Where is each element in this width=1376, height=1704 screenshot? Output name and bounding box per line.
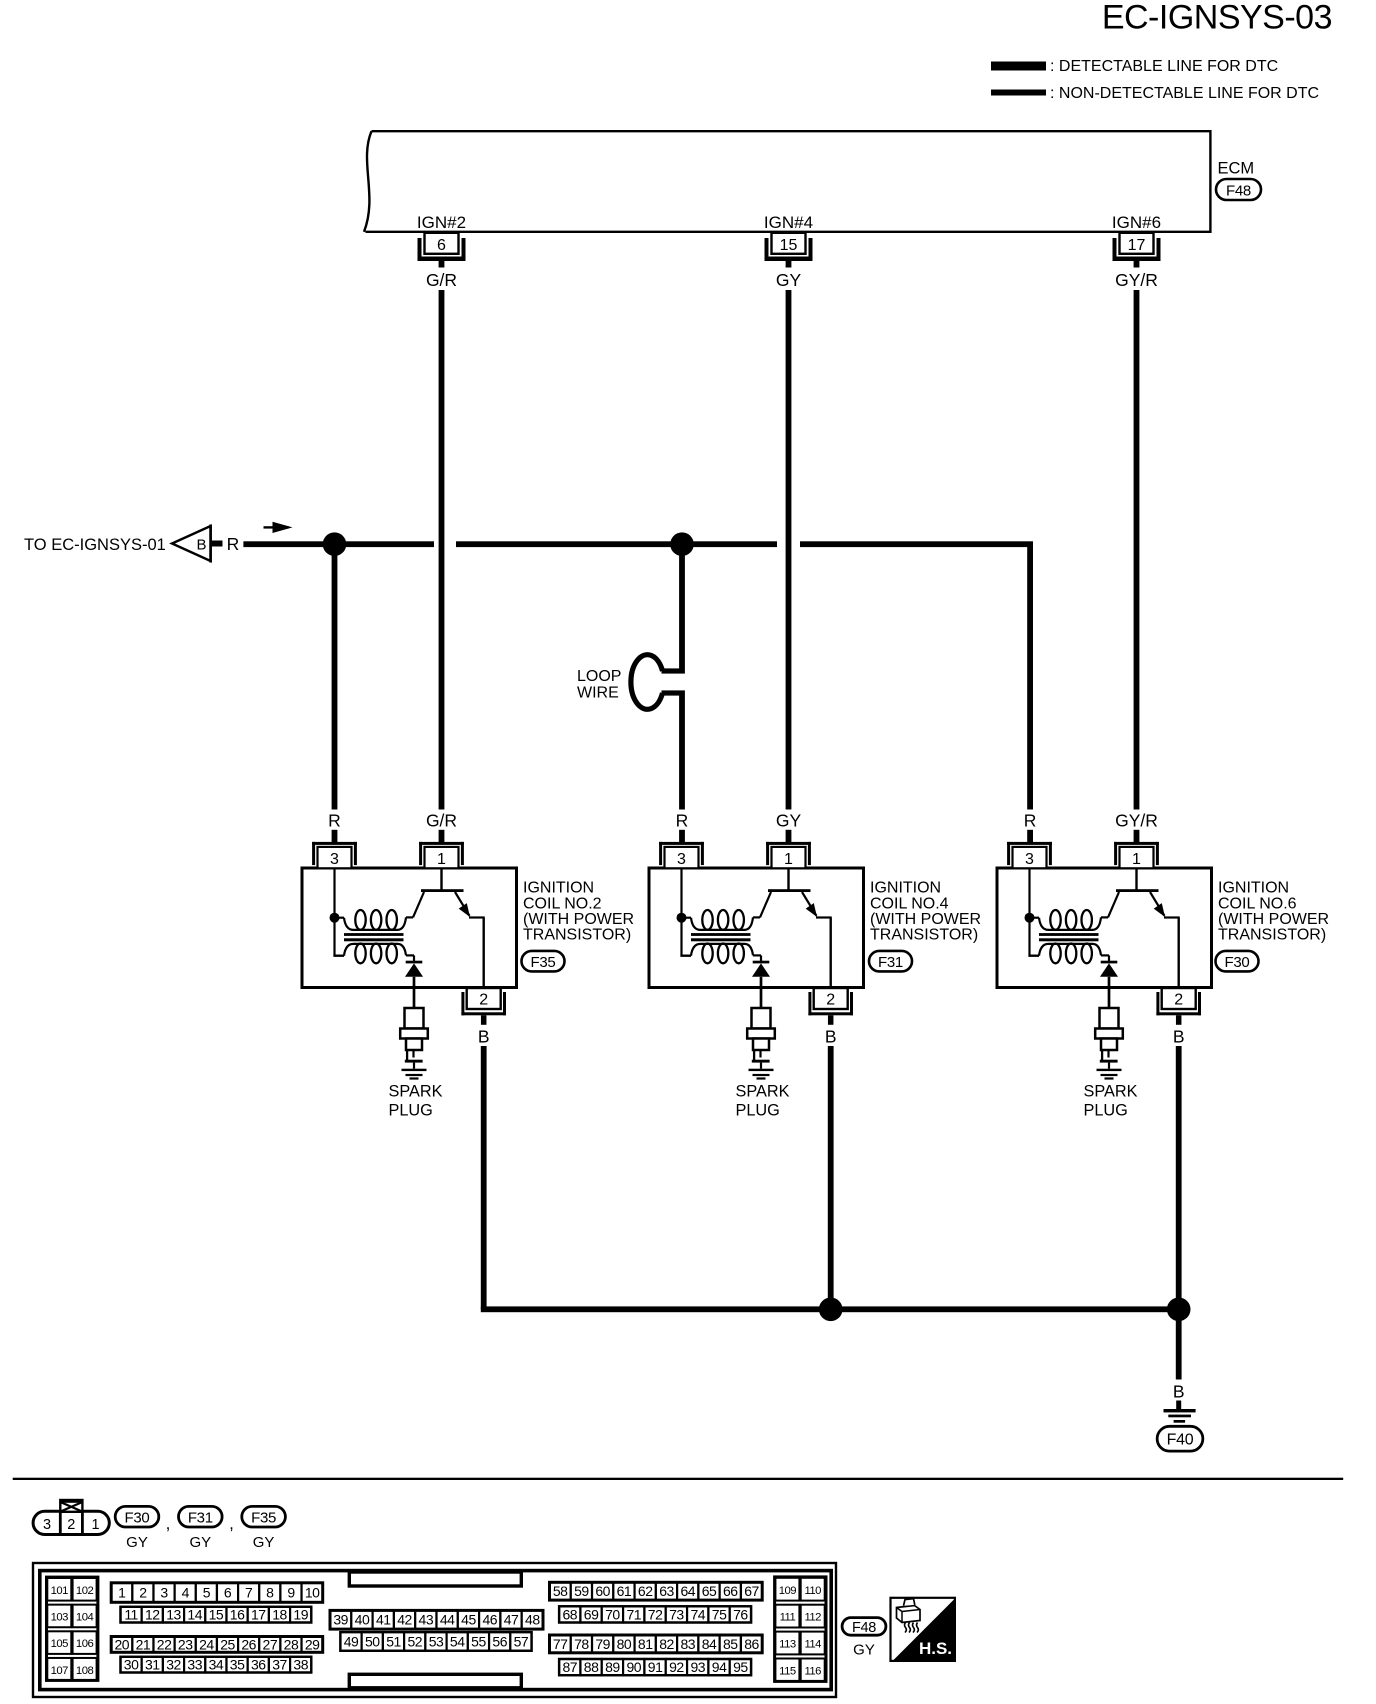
- connector F35 oval: [522, 951, 565, 972]
- svg-text:84: 84: [702, 1636, 717, 1652]
- transformer T2 secondary winding: [333, 944, 414, 964]
- transformer T2 primary winding: [339, 910, 414, 930]
- ground bus horizontal wire: [481, 1306, 1183, 1312]
- coil 6 internal wiring: pin3 lead: [1028, 868, 1030, 956]
- svg-text:86: 86: [744, 1636, 759, 1652]
- svg-text:67: 67: [744, 1583, 759, 1599]
- svg-text:1: 1: [118, 1584, 126, 1600]
- svg-text:R: R: [676, 810, 689, 830]
- svg-text:R: R: [1024, 810, 1037, 830]
- svg-text:76: 76: [733, 1606, 748, 1622]
- svg-text:23: 23: [178, 1636, 193, 1652]
- wire bus corner down to coil6 pin 3: [1027, 544, 1033, 810]
- svg-text:F35: F35: [531, 954, 556, 971]
- svg-text:27: 27: [263, 1636, 278, 1652]
- coil 6 pin 1 connector: [1114, 842, 1159, 868]
- coil 6 internal junction dot: [1025, 913, 1035, 923]
- svg-text:78: 78: [574, 1636, 589, 1652]
- svg-text:56: 56: [492, 1633, 507, 1649]
- ECM connector F48 face view outer box: [33, 1563, 836, 1697]
- svg-text:41: 41: [376, 1612, 391, 1628]
- connector F31 oval: [869, 951, 912, 972]
- transformer T6 primary winding: [1034, 910, 1109, 930]
- coil 4 internal junction dot: [677, 913, 687, 923]
- svg-text:,: ,: [166, 1514, 171, 1533]
- svg-text:20: 20: [114, 1636, 129, 1652]
- terminal rows 68-76: [559, 1606, 751, 1622]
- svg-text:PLUG: PLUG: [1084, 1102, 1128, 1120]
- svg-text:16: 16: [230, 1607, 245, 1623]
- svg-text:R: R: [227, 534, 240, 554]
- ignition coil box 2: [302, 868, 517, 988]
- svg-text:15: 15: [209, 1607, 224, 1623]
- svg-text:108: 108: [76, 1665, 94, 1677]
- coil 2 internal wiring: pin3 lead: [333, 868, 335, 956]
- svg-text:IGNITION: IGNITION: [1218, 880, 1289, 897]
- svg-text:68: 68: [562, 1606, 577, 1622]
- bus wire horizontal segment 2: [456, 541, 777, 547]
- svg-text:6: 6: [224, 1584, 232, 1600]
- svg-text:101: 101: [51, 1585, 69, 1597]
- wire from loop wire down to coil4 pin 3: [679, 696, 685, 810]
- svg-text:107: 107: [51, 1665, 69, 1677]
- connector F48 oval (ECM): [1216, 179, 1261, 200]
- ignition coil box 4: [649, 868, 864, 988]
- svg-text:IGNITION: IGNITION: [523, 880, 594, 897]
- svg-text:B: B: [196, 537, 206, 554]
- terminal rows 49-57: [340, 1632, 531, 1651]
- svg-text:B: B: [1173, 1381, 1185, 1401]
- svg-text:70: 70: [605, 1606, 620, 1622]
- svg-text:TRANSISTOR): TRANSISTOR): [523, 927, 631, 944]
- ECM terminal 6 (IGN#2) connector: [418, 233, 466, 268]
- diode D4: [752, 955, 770, 1008]
- svg-text:WIRE: WIRE: [577, 685, 619, 702]
- svg-text:22: 22: [157, 1636, 172, 1652]
- svg-text:74: 74: [690, 1606, 705, 1622]
- bus wire horizontal segment 3: [800, 541, 1033, 547]
- svg-text:106: 106: [76, 1638, 94, 1650]
- svg-text:F31: F31: [878, 954, 903, 971]
- svg-text:57: 57: [514, 1633, 529, 1649]
- off-page connector triangle B: [172, 526, 211, 561]
- svg-text:17: 17: [251, 1607, 266, 1623]
- svg-text:F40: F40: [1167, 1432, 1194, 1449]
- svg-text:B: B: [1173, 1027, 1185, 1047]
- terminal rows 30-38: [121, 1657, 312, 1673]
- svg-text:85: 85: [723, 1636, 738, 1652]
- transformer T2 core: [344, 933, 404, 936]
- svg-text:30: 30: [124, 1657, 139, 1673]
- svg-text:1: 1: [1132, 851, 1141, 868]
- svg-text:GY: GY: [126, 1534, 148, 1551]
- svg-text:B: B: [825, 1027, 837, 1047]
- svg-text:33: 33: [187, 1657, 202, 1673]
- H.S. data link icon: [891, 1598, 955, 1661]
- wire from ECM IGN#2 down to ignition coil pin 1: [439, 290, 445, 810]
- ignition coil 2 label: [523, 880, 634, 944]
- ECM box U1 (partial outline, torn left edge): [366, 131, 1211, 232]
- svg-text:3: 3: [43, 1517, 51, 1533]
- svg-text:F35: F35: [251, 1509, 276, 1526]
- svg-text:: NON-DETECTABLE LINE FOR DTC: : NON-DETECTABLE LINE FOR DTC: [1050, 85, 1319, 102]
- svg-text:1: 1: [784, 851, 793, 868]
- svg-text:111: 111: [780, 1612, 796, 1624]
- svg-text:ECM: ECM: [1218, 160, 1255, 178]
- ECM terminal 15 (IGN#4) connector: [765, 233, 813, 268]
- svg-text:F48: F48: [1226, 182, 1251, 199]
- svg-text:66: 66: [723, 1583, 738, 1599]
- svg-text:71: 71: [626, 1606, 641, 1622]
- svg-text:2: 2: [139, 1584, 147, 1600]
- svg-text:GY/R: GY/R: [1115, 810, 1158, 830]
- svg-text:PLUG: PLUG: [736, 1102, 780, 1120]
- svg-text:89: 89: [605, 1659, 620, 1675]
- svg-text:29: 29: [305, 1636, 320, 1652]
- svg-text:5: 5: [203, 1584, 211, 1600]
- terminal rows 39-48: [330, 1610, 543, 1629]
- ignition coil 4 label: [870, 880, 981, 944]
- svg-text:(WITH POWER: (WITH POWER: [870, 911, 981, 928]
- svg-text:IGN#4: IGN#4: [764, 213, 813, 232]
- svg-text:GY: GY: [776, 810, 802, 830]
- transformer T6 secondary winding: [1028, 944, 1109, 964]
- coil 2 pin 2 connector: [461, 988, 506, 1025]
- svg-text:69: 69: [584, 1606, 599, 1622]
- svg-text:SPARK: SPARK: [1084, 1082, 1138, 1100]
- svg-text:42: 42: [397, 1612, 412, 1628]
- svg-text:12: 12: [145, 1607, 160, 1623]
- svg-text:40: 40: [355, 1612, 370, 1628]
- connector F30 oval (bottom): [115, 1506, 159, 1550]
- ECM terminal 17 (IGN#6) connector: [1113, 233, 1161, 268]
- svg-text:58: 58: [553, 1583, 568, 1599]
- wire from coil 4 pin 2 down to ground bus: [828, 1046, 834, 1309]
- svg-text:G/R: G/R: [426, 810, 457, 830]
- svg-text:102: 102: [76, 1585, 94, 1597]
- svg-text:109: 109: [779, 1585, 797, 1597]
- coil 4 pin 1 connector: [766, 842, 811, 868]
- svg-text:1: 1: [437, 851, 446, 868]
- svg-text:13: 13: [166, 1607, 181, 1623]
- junction dot at coil4 ground: [819, 1298, 843, 1322]
- svg-text:87: 87: [562, 1659, 577, 1675]
- wire from coil 6 pin 2 down to ground bus: [1176, 1046, 1182, 1309]
- svg-text:49: 49: [344, 1633, 359, 1649]
- svg-text:GY: GY: [776, 270, 802, 290]
- ignition coil 6 label: [1218, 880, 1329, 944]
- svg-text:14: 14: [187, 1607, 202, 1623]
- svg-text:113: 113: [779, 1639, 796, 1651]
- svg-text:116: 116: [804, 1666, 821, 1678]
- loop wire symbol: [662, 668, 685, 673]
- svg-text:LOOP: LOOP: [577, 668, 621, 685]
- svg-text:45: 45: [461, 1612, 476, 1628]
- direction arrow: [264, 526, 289, 528]
- coil 2 pin 1 connector: [419, 842, 464, 868]
- svg-text:COIL NO.4: COIL NO.4: [870, 895, 949, 912]
- svg-text:21: 21: [136, 1636, 151, 1652]
- svg-text:36: 36: [251, 1657, 266, 1673]
- junction dot node at coil2 branch: [323, 532, 347, 556]
- terminal rows 77-86: [550, 1635, 763, 1653]
- svg-text:35: 35: [230, 1657, 245, 1673]
- ECM connector inner box: [40, 1571, 831, 1690]
- terminal rows 87-95: [559, 1659, 751, 1675]
- svg-text:75: 75: [712, 1606, 727, 1622]
- svg-text:10: 10: [305, 1584, 320, 1600]
- svg-text:1: 1: [91, 1517, 99, 1533]
- svg-text:26: 26: [241, 1636, 256, 1652]
- svg-text:F31: F31: [188, 1509, 213, 1526]
- svg-text:SPARK: SPARK: [389, 1082, 443, 1100]
- svg-text:82: 82: [659, 1636, 674, 1652]
- svg-text:(WITH POWER: (WITH POWER: [1218, 911, 1329, 928]
- svg-text:(WITH POWER: (WITH POWER: [523, 911, 634, 928]
- svg-text:F48: F48: [852, 1620, 876, 1636]
- svg-text:COIL NO.2: COIL NO.2: [523, 895, 602, 912]
- svg-text:52: 52: [407, 1633, 422, 1649]
- svg-text:IGN#2: IGN#2: [417, 213, 466, 232]
- spark plug 4: [747, 1008, 775, 1080]
- svg-text:37: 37: [272, 1657, 287, 1673]
- spark plug 2: [400, 1008, 428, 1080]
- spark plug 6: [1095, 1008, 1123, 1080]
- wire from junction down to loop wire: [679, 552, 685, 669]
- svg-text:92: 92: [669, 1659, 684, 1675]
- transformer T4 secondary winding: [680, 944, 761, 964]
- svg-text:104: 104: [76, 1612, 94, 1624]
- svg-text:65: 65: [702, 1583, 717, 1599]
- svg-text:18: 18: [272, 1607, 287, 1623]
- svg-text:50: 50: [365, 1633, 380, 1649]
- svg-text:95: 95: [733, 1659, 748, 1675]
- svg-text:2: 2: [1174, 992, 1183, 1009]
- svg-text:62: 62: [638, 1583, 653, 1599]
- svg-text:94: 94: [712, 1659, 727, 1675]
- wire from ECM IGN#4 down to ignition coil pin 1: [786, 290, 792, 810]
- transformer T4 core: [691, 933, 751, 936]
- svg-text:EC-IGNSYS-03: EC-IGNSYS-03: [1102, 0, 1332, 37]
- coil connector face (3-2-1): [33, 1499, 109, 1534]
- connector F31 oval (bottom): [179, 1506, 223, 1550]
- svg-text:60: 60: [595, 1583, 610, 1599]
- top notch: [349, 1572, 521, 1586]
- wire from ECM IGN#6 down to ignition coil pin 1: [1134, 290, 1140, 810]
- svg-text:H.S.: H.S.: [919, 1639, 952, 1658]
- svg-text:3: 3: [1025, 851, 1034, 868]
- svg-text:3: 3: [160, 1584, 168, 1600]
- svg-text:110: 110: [804, 1585, 821, 1597]
- bottom notch: [349, 1674, 521, 1688]
- coil 6 pin 3 connector: [1007, 842, 1052, 868]
- wire from coil 2 pin 2 down to ground bus: [481, 1046, 487, 1309]
- coil 4 internal wiring: pin3 lead: [680, 868, 682, 956]
- svg-text:7: 7: [245, 1584, 253, 1600]
- svg-text:39: 39: [333, 1612, 348, 1628]
- svg-text:COIL NO.6: COIL NO.6: [1218, 895, 1297, 912]
- connector F35 oval (bottom): [242, 1506, 286, 1550]
- transformer T4 primary winding: [686, 910, 761, 930]
- diode D6: [1100, 955, 1118, 1008]
- svg-text:11: 11: [124, 1607, 138, 1623]
- svg-text:9: 9: [287, 1584, 295, 1600]
- svg-text:4: 4: [182, 1584, 190, 1600]
- svg-text:73: 73: [669, 1606, 684, 1622]
- svg-text:43: 43: [419, 1612, 434, 1628]
- svg-text:61: 61: [617, 1583, 632, 1599]
- terminal rows 58-67: [550, 1582, 763, 1600]
- svg-text:25: 25: [220, 1636, 235, 1652]
- svg-text:15: 15: [780, 237, 798, 254]
- svg-text:93: 93: [690, 1659, 705, 1675]
- svg-text:32: 32: [166, 1657, 181, 1673]
- svg-text:F30: F30: [125, 1509, 150, 1526]
- connector F30 oval: [1216, 951, 1259, 972]
- svg-text:64: 64: [680, 1583, 695, 1599]
- svg-text:: DETECTABLE LINE FOR DTC: : DETECTABLE LINE FOR DTC: [1050, 58, 1278, 75]
- coil 6 pin 2 connector: [1156, 988, 1201, 1025]
- svg-text:80: 80: [617, 1636, 632, 1652]
- svg-text:SPARK: SPARK: [736, 1082, 790, 1100]
- svg-text:54: 54: [450, 1633, 465, 1649]
- connector F40 oval (ground): [1157, 1426, 1203, 1451]
- connector F48 oval (bottom): [842, 1618, 886, 1636]
- svg-text:,: ,: [229, 1514, 234, 1533]
- diode D2: [405, 955, 423, 1008]
- svg-text:72: 72: [648, 1606, 663, 1622]
- svg-text:28: 28: [284, 1636, 299, 1652]
- svg-text:8: 8: [266, 1584, 274, 1600]
- svg-text:GY: GY: [253, 1534, 275, 1551]
- terminal rows 20-29: [111, 1636, 323, 1652]
- svg-text:IGNITION: IGNITION: [870, 880, 941, 897]
- svg-text:81: 81: [638, 1636, 653, 1652]
- svg-text:B: B: [478, 1027, 490, 1047]
- svg-text:112: 112: [804, 1612, 821, 1624]
- legend non-detectable line bar: [991, 90, 1046, 96]
- junction dot at coil6 ground: [1167, 1298, 1191, 1322]
- svg-text:GY: GY: [853, 1642, 875, 1659]
- svg-text:IGN#6: IGN#6: [1112, 213, 1161, 232]
- svg-text:2: 2: [826, 992, 835, 1009]
- svg-text:17: 17: [1128, 237, 1146, 254]
- coil 4 pin 3 connector: [659, 842, 704, 868]
- svg-text:88: 88: [584, 1659, 599, 1675]
- power transistor Q4: [760, 868, 832, 988]
- svg-text:115: 115: [779, 1666, 796, 1678]
- ground symbol: [1176, 1401, 1181, 1413]
- coil 2 pin 3 connector: [312, 842, 357, 868]
- svg-text:2: 2: [67, 1517, 75, 1533]
- terminal rows 11-19: [121, 1607, 312, 1623]
- svg-text:TRANSISTOR): TRANSISTOR): [1218, 927, 1326, 944]
- wire from bus down to ground: [1176, 1312, 1182, 1380]
- svg-text:55: 55: [471, 1633, 486, 1649]
- svg-text:63: 63: [659, 1583, 674, 1599]
- separator line: [13, 1478, 1344, 1480]
- svg-text:105: 105: [51, 1638, 69, 1650]
- svg-text:6: 6: [437, 237, 446, 254]
- svg-text:GY/R: GY/R: [1115, 270, 1158, 290]
- svg-text:PLUG: PLUG: [389, 1102, 433, 1120]
- svg-text:G/R: G/R: [426, 270, 457, 290]
- svg-text:83: 83: [680, 1636, 695, 1652]
- terminal block 101-108: [47, 1577, 98, 1680]
- svg-text:3: 3: [330, 851, 339, 868]
- legend detectable line bar: [991, 62, 1046, 71]
- svg-text:51: 51: [386, 1633, 401, 1649]
- stub from triangle: [211, 541, 223, 547]
- svg-text:79: 79: [595, 1636, 610, 1652]
- svg-text:3: 3: [677, 851, 686, 868]
- coil 4 pin 2 connector: [808, 988, 853, 1025]
- power transistor Q6: [1108, 868, 1180, 988]
- svg-text:24: 24: [199, 1636, 214, 1652]
- transformer T6 core: [1039, 933, 1099, 936]
- svg-text:19: 19: [293, 1607, 308, 1623]
- terminal rows 1-10: [111, 1583, 323, 1603]
- svg-text:31: 31: [145, 1657, 160, 1673]
- svg-text:48: 48: [525, 1612, 540, 1628]
- bus wire horizontal segment 1: [243, 541, 434, 547]
- svg-text:90: 90: [626, 1659, 641, 1675]
- svg-text:59: 59: [574, 1583, 589, 1599]
- svg-text:R: R: [328, 810, 341, 830]
- svg-text:91: 91: [648, 1659, 663, 1675]
- svg-text:2: 2: [479, 992, 488, 1009]
- svg-text:38: 38: [293, 1657, 308, 1673]
- svg-text:44: 44: [440, 1612, 455, 1628]
- ignition coil box 6: [997, 868, 1212, 988]
- svg-text:34: 34: [209, 1657, 224, 1673]
- svg-text:77: 77: [553, 1636, 568, 1652]
- svg-text:47: 47: [504, 1612, 519, 1628]
- svg-text:53: 53: [429, 1633, 444, 1649]
- terminal block 109-116: [775, 1577, 826, 1682]
- svg-text:TRANSISTOR): TRANSISTOR): [870, 927, 978, 944]
- junction dot node at loop-wire branch: [670, 532, 694, 556]
- svg-text:F30: F30: [1225, 954, 1250, 971]
- svg-text:TO EC-IGNSYS-01: TO EC-IGNSYS-01: [24, 536, 166, 554]
- svg-text:GY: GY: [189, 1534, 211, 1551]
- svg-text:114: 114: [804, 1639, 821, 1651]
- svg-text:103: 103: [51, 1612, 69, 1624]
- coil 2 internal junction dot: [330, 913, 340, 923]
- wire from junction down to coil2 pin 3: [332, 552, 338, 810]
- svg-text:46: 46: [482, 1612, 497, 1628]
- power transistor Q2: [413, 868, 485, 988]
